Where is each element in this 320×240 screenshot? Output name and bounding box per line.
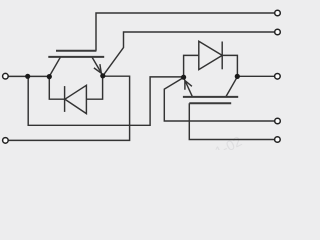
- node E junction dot: [235, 74, 240, 79]
- wire E1 sense: terminal T2 down and diagonal to emitter node of Q1: [103, 32, 275, 76]
- node D junction dot: [181, 75, 186, 80]
- transistor Q1 gate bar: [48, 56, 104, 58]
- terminal T2 (E1 aux): [275, 29, 281, 35]
- wire E1 main: node C right, down, left to terminal T7: [8, 76, 129, 140]
- transistor Q2 emitter leg: [184, 78, 193, 97]
- wire G1 feed: terminal T1 to gate lead of Q1: [96, 13, 275, 51]
- wire E2 sense: node D diagonal, down, right to terminal T4: [164, 78, 274, 122]
- node A junction dot: [25, 74, 30, 79]
- transistor Q2 emitter arrowhead: [185, 81, 192, 90]
- diode D1 cathode bar: [64, 86, 66, 112]
- wire C2: node E to terminal T3: [237, 75, 274, 77]
- node C junction dot: [100, 73, 105, 78]
- wire C1-E2 link: node A down, across, up to node D: [28, 76, 183, 125]
- diode D2 cathode wire: bar right and down to node E: [222, 55, 237, 76]
- transistor Q1 collector leg: [49, 57, 60, 77]
- terminal T6 (C1): [3, 73, 9, 79]
- terminal T3 (C2): [275, 74, 281, 80]
- transistor Q1 emitter arrowhead: [94, 64, 101, 73]
- diode D2 anode wire: node D up and right to triangle: [184, 55, 199, 77]
- transistor Q2 collector leg: [226, 77, 238, 97]
- diode D2 triangle: [199, 41, 222, 69]
- diode D1 cathode wire: node B down to cathode bar: [49, 76, 64, 99]
- transistor Q1 emitter leg: [92, 57, 103, 76]
- transistor Q1 gate lead line: [56, 50, 96, 52]
- transistor Q2 gate lead line: [189, 102, 231, 104]
- diode D1 anode wire: triangle to node C: [86, 76, 102, 99]
- node B junction dot: [47, 74, 52, 79]
- terminal T4 (E2 aux): [275, 118, 281, 124]
- terminal T5 (G2): [275, 137, 281, 143]
- svg-text:1-02: 1-02: [212, 133, 244, 150]
- wire G2 feed: gate lead of Q2 down and right to terminal T5: [189, 103, 274, 139]
- transistor Q2 gate bar: [183, 96, 238, 98]
- diode D1 triangle: [65, 85, 87, 113]
- terminal T1 (G1): [275, 10, 281, 16]
- terminal T7 (E1): [3, 138, 9, 144]
- diode D2 cathode bar: [221, 42, 223, 70]
- wire C1 bus: terminal T6 to node B: [8, 75, 49, 77]
